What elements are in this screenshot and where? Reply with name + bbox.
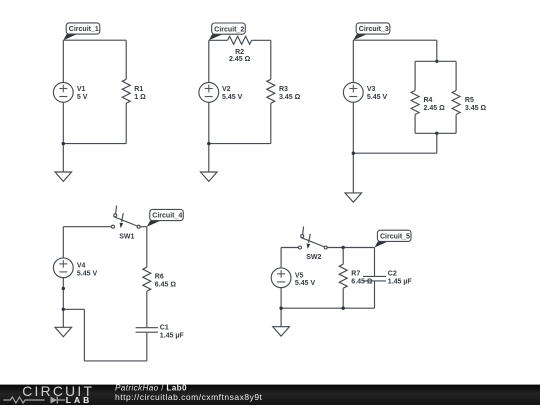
svg-text:C1: C1 — [160, 324, 169, 331]
svg-text:R5: R5 — [465, 97, 474, 104]
svg-text:1 Ω: 1 Ω — [134, 94, 146, 101]
svg-text:3.45 Ω: 3.45 Ω — [279, 94, 301, 101]
svg-text:6.45 Ω: 6.45 Ω — [155, 282, 177, 289]
svg-text:SW2: SW2 — [306, 254, 321, 261]
svg-text:Circuit_4: Circuit_4 — [152, 213, 182, 220]
svg-text:LAB: LAB — [66, 395, 92, 405]
svg-text:V5: V5 — [295, 272, 304, 279]
svg-text:R3: R3 — [279, 86, 288, 93]
svg-text:5.45 V: 5.45 V — [77, 270, 98, 277]
svg-text:V2: V2 — [222, 86, 231, 93]
svg-text:http://circuitlab.com/cxmftnsa: http://circuitlab.com/cxmftnsax8y9t — [115, 392, 263, 402]
svg-text:3.45 Ω: 3.45 Ω — [465, 105, 487, 112]
svg-text:2.45 Ω: 2.45 Ω — [424, 105, 446, 112]
svg-text:Circuit_2: Circuit_2 — [214, 26, 244, 33]
svg-text:1.45 µF: 1.45 µF — [388, 279, 413, 286]
svg-text:V3: V3 — [367, 86, 376, 93]
svg-text:R6: R6 — [155, 274, 164, 281]
svg-text:R1: R1 — [134, 86, 143, 93]
svg-text:R7: R7 — [351, 271, 360, 278]
svg-text:V1: V1 — [77, 86, 86, 93]
svg-text:R2: R2 — [235, 49, 244, 56]
svg-text:5.45 V: 5.45 V — [222, 94, 243, 101]
svg-text:5 V: 5 V — [77, 94, 88, 101]
svg-text:5.45 V: 5.45 V — [295, 280, 316, 287]
svg-text:1.45 µF: 1.45 µF — [160, 332, 185, 339]
svg-text:V4: V4 — [77, 262, 86, 269]
svg-text:Circuit_1: Circuit_1 — [69, 26, 99, 33]
svg-text:5.45 V: 5.45 V — [367, 94, 388, 101]
svg-text:SW1: SW1 — [119, 233, 134, 240]
svg-text:6.45 Ω: 6.45 Ω — [351, 279, 373, 286]
svg-text:Circuit_3: Circuit_3 — [359, 26, 389, 33]
svg-text:Circuit_5: Circuit_5 — [380, 234, 410, 241]
svg-text:2.45 Ω: 2.45 Ω — [229, 56, 251, 63]
svg-text:R4: R4 — [424, 97, 433, 104]
svg-text:C2: C2 — [388, 271, 397, 278]
